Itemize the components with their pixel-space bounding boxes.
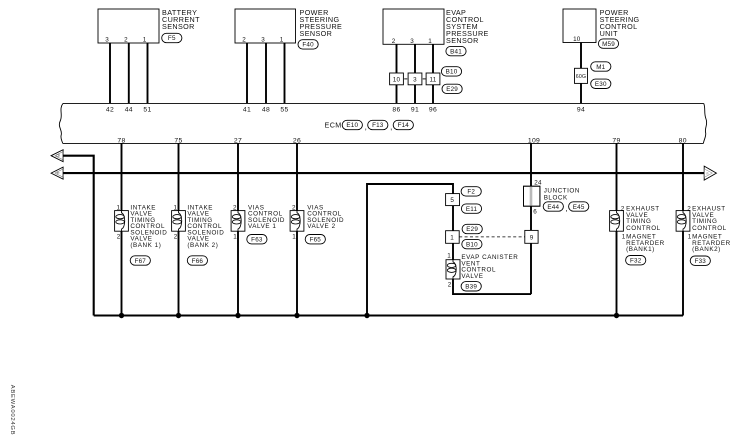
svg-text:6: 6 (533, 208, 537, 215)
pin 3 of F5 (105, 37, 109, 44)
intake valve timing control solenoid valve bank2 F66 coil (172, 211, 186, 232)
svg-text:9: 9 (530, 234, 534, 241)
svg-text:1: 1 (450, 235, 454, 242)
ECM pin 109 (528, 137, 540, 144)
EVAP canister vent control valve coil (446, 260, 460, 279)
connector pass-through pin 11 (426, 73, 440, 85)
svg-text:79: 79 (612, 137, 620, 144)
connector box pin 9 (525, 230, 538, 243)
svg-text:,: , (566, 204, 568, 213)
svg-text:ECM: ECM (325, 120, 342, 129)
svg-text:80: 80 (679, 137, 687, 144)
comma after F13 (390, 123, 392, 132)
svg-text:2: 2 (242, 37, 246, 44)
battery current sensor label (162, 8, 200, 31)
svg-text:E44: E44 (547, 204, 559, 211)
svg-text:(BANK 1): (BANK 1) (130, 242, 161, 249)
ECM pin 94 (577, 106, 585, 113)
svg-text:109: 109 (528, 137, 540, 144)
EVAP pressure sensor label (446, 8, 489, 45)
svg-text:E29: E29 (446, 86, 458, 93)
ECM pin 79 (612, 137, 620, 144)
off-page arrow (upper left) (51, 150, 63, 162)
wire B41 pin 3 to ECM 91 (414, 44, 416, 103)
connector F14 (393, 120, 413, 129)
pin 3 of F40 (261, 37, 265, 44)
svg-text:B39: B39 (465, 284, 477, 291)
connector box pin 5 (446, 194, 460, 206)
svg-text:F65: F65 (310, 236, 322, 243)
exhaust valve timing control magnet retarder bank1 F32 coil (610, 211, 624, 232)
svg-text:2: 2 (233, 205, 237, 212)
svg-text:1: 1 (622, 233, 626, 240)
svg-text:B41: B41 (450, 48, 462, 55)
svg-text:F13: F13 (372, 122, 384, 129)
svg-text:M59: M59 (602, 41, 615, 48)
dash between pin 10 and pin 3 boxes (404, 78, 407, 80)
wire ECM 78 to F67 (121, 143, 123, 315)
connector F67 (130, 256, 150, 265)
pin 1 of F66 (173, 205, 177, 212)
svg-text:3: 3 (413, 76, 417, 83)
connector B10 lower (462, 239, 482, 248)
EVAP canister vent control valve label (461, 254, 518, 280)
svg-text:(BANK2): (BANK2) (692, 246, 721, 253)
pin 2 of F66 (174, 234, 178, 241)
pin 6 of junction block (533, 208, 537, 215)
junction block label (544, 187, 580, 201)
svg-text:1: 1 (143, 37, 147, 44)
svg-text:2: 2 (292, 205, 296, 212)
connector pass-through 60G (575, 68, 588, 83)
wire ECM 27 to F63 (237, 143, 239, 315)
wire ECM 79 to F32 (616, 143, 618, 315)
connector E44 (543, 202, 563, 211)
connector pass-through pin 3 (408, 73, 422, 85)
svg-text:2: 2 (448, 281, 452, 288)
svg-text:F67: F67 (135, 258, 147, 265)
connector E45 (569, 202, 589, 211)
svg-text:SENSOR: SENSOR (446, 36, 479, 45)
junction at x=367 (364, 313, 369, 318)
ECM pin 44 (125, 106, 133, 113)
connector E10 (342, 120, 362, 129)
svg-text:BLOCK: BLOCK (544, 194, 568, 201)
VIAS control solenoid valve 1 F63 coil (231, 211, 245, 232)
connector F2 (461, 187, 481, 196)
connector B10 (441, 67, 461, 76)
svg-text:B: B (56, 154, 61, 157)
svg-text:48: 48 (262, 106, 270, 113)
ground bus wire (94, 314, 683, 316)
svg-text:2: 2 (174, 234, 178, 241)
svg-text:1: 1 (233, 234, 237, 241)
power steering control unit M59 box (563, 9, 596, 43)
connector F13 (368, 120, 388, 129)
pin 1 of B41 (428, 38, 432, 45)
ECM pin 55 (280, 106, 288, 113)
pin 1 of EVAP canister vent control valve (447, 253, 451, 260)
svg-text:UNIT: UNIT (600, 29, 619, 38)
ECM pin 27 (234, 137, 242, 144)
svg-text:3: 3 (105, 37, 109, 44)
connector E29 lower (462, 224, 482, 233)
pin 2 of F67 (117, 234, 121, 241)
pin 1 of F67 (116, 205, 120, 212)
exhaust valve timing control magnet retarder bank2 F33 coil (676, 211, 690, 232)
svg-text:F66: F66 (192, 258, 204, 265)
pin 1 of F65 (292, 234, 296, 241)
junction at x=178.5 (176, 313, 181, 318)
VIAS control solenoid valve 2 label (307, 204, 344, 230)
svg-text:F33: F33 (695, 258, 707, 265)
svg-text:VALVE 2: VALVE 2 (307, 223, 335, 230)
exhaust valve timing control magnet retarder bank1 label (626, 205, 665, 253)
svg-text:41: 41 (243, 106, 251, 113)
pin 2 of F33 (687, 205, 691, 212)
intake valve timing control solenoid valve bank2 label (187, 204, 224, 249)
svg-text:1: 1 (280, 37, 284, 44)
svg-text:E11: E11 (466, 206, 478, 213)
connector E29 (442, 84, 462, 93)
svg-text:2: 2 (392, 38, 396, 45)
svg-text:F63: F63 (251, 236, 263, 243)
svg-text:F14: F14 (398, 122, 410, 129)
svg-text:CONTROL: CONTROL (692, 225, 727, 232)
svg-text:M1: M1 (596, 64, 605, 71)
svg-text:,: , (390, 123, 392, 132)
connector E11 (461, 204, 481, 213)
svg-text:26: 26 (293, 137, 301, 144)
svg-text:27: 27 (234, 137, 242, 144)
wire F40 pin 3 to ECM 48 (265, 43, 267, 103)
wire lower left arrow to right arrow (63, 172, 704, 174)
wire EVAP loop top and left to bus (367, 184, 453, 316)
svg-text:44: 44 (125, 106, 133, 113)
svg-text:96: 96 (429, 106, 437, 113)
ECM pin 48 (262, 106, 270, 113)
ECM pin 78 (117, 137, 125, 144)
svg-text:B10: B10 (446, 69, 458, 76)
ECM pin 42 (106, 106, 114, 113)
svg-text:E10: E10 (346, 122, 358, 129)
wire ECM 75 to F66 (178, 143, 180, 315)
junction block (524, 186, 540, 206)
svg-text:SENSOR: SENSOR (300, 29, 333, 38)
svg-text:,: , (365, 123, 367, 132)
pin 1 of F63 (233, 234, 237, 241)
svg-text:94: 94 (577, 106, 585, 113)
connector M59 (598, 39, 618, 48)
wire B41 pin 2 to ECM 86 (396, 44, 398, 103)
svg-text:55: 55 (280, 106, 288, 113)
pin 1 of F33 (688, 233, 692, 240)
svg-text:5: 5 (450, 197, 454, 204)
connector E30 (591, 79, 611, 88)
comma after E10 (365, 123, 367, 132)
svg-text:10: 10 (573, 36, 581, 43)
power steering pressure sensor label (300, 8, 343, 38)
svg-text:2: 2 (124, 37, 128, 44)
pin 2 of F5 (124, 37, 128, 44)
connector F40 (298, 40, 318, 49)
pin 2 of B41 (392, 38, 396, 45)
svg-text:CONTROL: CONTROL (626, 225, 661, 232)
svg-text:1: 1 (688, 233, 692, 240)
ECM pin 41 (243, 106, 251, 113)
junction at x=238 (235, 313, 240, 318)
svg-text:10: 10 (393, 76, 401, 83)
connector F65 (305, 235, 325, 244)
junction at x=297 (294, 313, 299, 318)
connector B39 (461, 282, 481, 291)
wire valve bottom to box9 branch (453, 279, 531, 294)
svg-text:SENSOR: SENSOR (162, 22, 195, 31)
svg-text:F32: F32 (630, 257, 642, 264)
ECM label (325, 120, 342, 129)
ECM pin 86 (392, 106, 400, 113)
svg-text:1: 1 (292, 234, 296, 241)
EVAP control system pressure sensor B41 box (383, 9, 444, 44)
ECM pin 75 (174, 137, 182, 144)
svg-text:(BANK1): (BANK1) (626, 246, 655, 253)
svg-text:1: 1 (116, 205, 120, 212)
off-page arrow (lower left) (51, 167, 63, 179)
off-page arrow (right) (704, 166, 716, 180)
ECM pin 96 (429, 106, 437, 113)
pin 24 of junction block (534, 180, 542, 187)
dashed link box1 to box9 (459, 236, 525, 238)
connector pass-through pin 10 (390, 73, 404, 85)
pin 1 of F40 (280, 37, 284, 44)
svg-text:3: 3 (261, 37, 265, 44)
wire F40 pin 2 to ECM 41 (246, 43, 248, 103)
svg-text:2: 2 (687, 205, 691, 212)
connector B41 (446, 46, 466, 55)
svg-text:1: 1 (447, 253, 451, 260)
wire ECM 109 to junction block (530, 143, 532, 294)
dash between pin 3 and pin 11 boxes (423, 78, 426, 80)
pin 2 of EVAP canister vent control valve (448, 281, 452, 288)
svg-text:ABEWA0024GB: ABEWA0024GB (9, 385, 15, 436)
svg-text:24: 24 (534, 180, 542, 187)
svg-text:E29: E29 (466, 226, 478, 233)
svg-text:VALVE: VALVE (461, 273, 483, 280)
svg-text:86: 86 (392, 106, 400, 113)
svg-text:1: 1 (173, 205, 177, 212)
connector F32 (626, 256, 646, 265)
svg-text:78: 78 (117, 137, 125, 144)
svg-text:11: 11 (430, 76, 437, 83)
comma between E44 and E45 (566, 204, 568, 213)
svg-text:1: 1 (428, 38, 432, 45)
intake valve timing control solenoid valve bank1 label (130, 204, 167, 249)
pin 2 of F65 (292, 205, 296, 212)
ECM pin 26 (293, 137, 301, 144)
pin 2 of F40 (242, 37, 246, 44)
wire B41 pin 1 to ECM 96 (432, 44, 434, 103)
wire F5 pin 3 to ECM 42 (109, 43, 111, 103)
svg-text:VALVE 1: VALVE 1 (248, 223, 276, 230)
power steering pressure sensor F40 box (235, 9, 296, 43)
svg-text:42: 42 (106, 106, 114, 113)
wire F5 pin 2 to ECM 44 (128, 43, 130, 103)
ECM pin 51 (143, 106, 151, 113)
svg-text:F40: F40 (302, 42, 314, 49)
svg-text:JUNCTION: JUNCTION (544, 187, 580, 194)
connector F5 (162, 33, 182, 42)
connector box pin 1 (446, 231, 460, 244)
wire F40 pin 1 to ECM 55 (284, 43, 286, 103)
exhaust valve timing control magnet retarder bank2 label (692, 205, 731, 253)
svg-text:B10: B10 (466, 241, 478, 248)
ECM pin 80 (679, 137, 687, 144)
wire ECM 26 to F65 (296, 143, 298, 315)
wire box5 to box1 to valve (452, 206, 454, 260)
svg-text:2: 2 (621, 205, 625, 212)
svg-text:60G: 60G (576, 74, 586, 80)
wire M59 pin 10 to ECM 94 (580, 43, 582, 104)
connector F33 (690, 256, 710, 265)
diagram id ABEWA0024GB (9, 385, 15, 436)
svg-text:F2: F2 (467, 189, 475, 196)
pin 10 of M59 (573, 36, 581, 43)
power steering control unit label (600, 8, 640, 38)
pin 2 of F32 (621, 205, 625, 212)
wire ECM 80 to F33 (682, 143, 684, 315)
VIAS control solenoid valve 2 F65 coil (290, 211, 304, 232)
VIAS control solenoid valve 1 label (248, 204, 285, 230)
svg-text:75: 75 (174, 137, 182, 144)
ECM pin 91 (411, 106, 419, 113)
connector M1 (591, 62, 611, 71)
pin 1 of F5 (143, 37, 147, 44)
svg-text:2: 2 (117, 234, 121, 241)
connector F63 (247, 235, 267, 244)
pin 1 of F32 (622, 233, 626, 240)
junction at x=616.5 (614, 313, 619, 318)
junction at x=121.5 (119, 313, 124, 318)
svg-text:E45: E45 (573, 204, 585, 211)
ECM connector band outline (59, 103, 706, 143)
wire from upper left arrow (63, 156, 94, 316)
svg-text:91: 91 (411, 106, 419, 113)
svg-text:(BANK 2): (BANK 2) (187, 242, 218, 249)
pin 3 of B41 (410, 38, 414, 45)
svg-text:F5: F5 (168, 35, 176, 42)
pin 2 of F63 (233, 205, 237, 212)
wire F5 pin 1 to ECM 51 (147, 43, 149, 103)
connector F66 (187, 256, 207, 265)
svg-text:E30: E30 (595, 81, 607, 88)
svg-text:3: 3 (410, 38, 414, 45)
svg-text:51: 51 (143, 106, 151, 113)
battery current sensor F5 box (98, 9, 159, 43)
intake valve timing control solenoid valve bank1 F67 coil (115, 211, 129, 232)
